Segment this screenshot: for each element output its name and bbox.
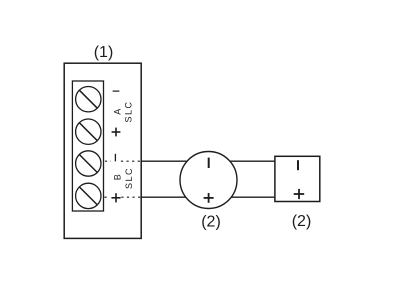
end device D2 (square) bbox=[275, 156, 320, 201]
minus mark SLC A bbox=[113, 90, 120, 92]
svg-text:B: B bbox=[112, 174, 122, 180]
screw terminal 1 bbox=[76, 87, 101, 112]
svg-text:A: A bbox=[113, 109, 123, 115]
minus mark D2 bbox=[297, 160, 299, 170]
screw terminal 3 bbox=[76, 151, 101, 176]
wire SLC plus run bbox=[141, 196, 275, 198]
wire SLC minus run bbox=[141, 160, 275, 162]
label A SLC bbox=[113, 100, 134, 122]
plus mark D1 bbox=[204, 193, 214, 203]
svg-text:SLC: SLC bbox=[124, 167, 134, 189]
minus mark SLC B bbox=[114, 154, 116, 162]
detector device D1 (circle) bbox=[180, 152, 237, 209]
terminal block TB1 outer body bbox=[64, 63, 141, 238]
minus mark D1 bbox=[208, 158, 210, 168]
screw terminal 2 bbox=[76, 119, 101, 144]
svg-text:(2): (2) bbox=[201, 213, 221, 230]
svg-text:(1): (1) bbox=[94, 44, 114, 61]
dotted wire terminal 3 bbox=[105, 160, 141, 162]
plus mark SLC A bbox=[112, 128, 121, 137]
screw terminal 4 bbox=[76, 183, 101, 208]
dotted wire terminal 4 bbox=[104, 196, 140, 198]
svg-text:(2): (2) bbox=[292, 213, 312, 230]
plus mark SLC B bbox=[111, 193, 120, 202]
plus mark D2 bbox=[294, 189, 305, 199]
terminal strip inner body bbox=[72, 81, 103, 211]
svg-text:SLC: SLC bbox=[123, 100, 133, 122]
label B SLC bbox=[112, 167, 134, 189]
